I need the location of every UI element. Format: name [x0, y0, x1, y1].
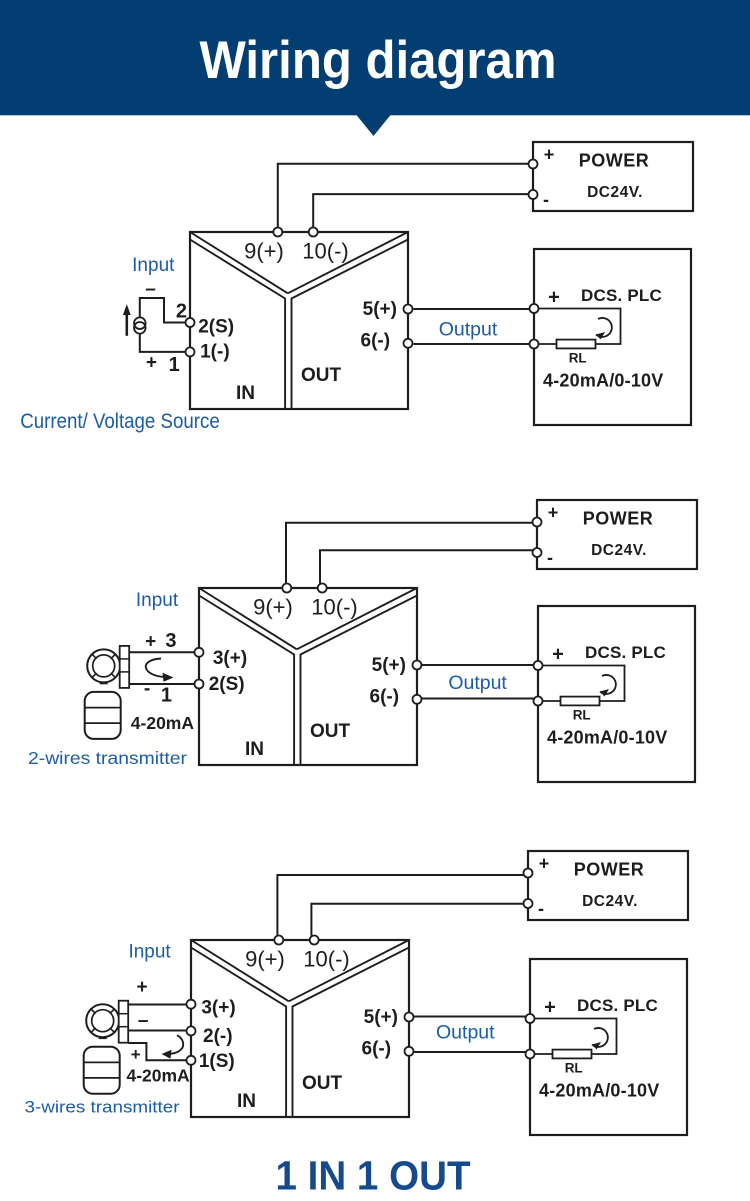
svg-text:Current/ Voltage Source: Current/ Voltage Source: [20, 409, 220, 433]
svg-text:Input: Input: [128, 941, 171, 962]
svg-text:3(+): 3(+): [213, 648, 247, 669]
svg-text:1 IN 1 OUT: 1 IN 1 OUT: [276, 1153, 471, 1199]
svg-text:1(S): 1(S): [199, 1051, 235, 1072]
svg-text:Input: Input: [132, 255, 175, 276]
svg-text:2: 2: [176, 301, 187, 323]
svg-text:2(S): 2(S): [209, 674, 245, 695]
svg-text:+: +: [137, 977, 148, 998]
svg-text:4-20mA: 4-20mA: [131, 713, 195, 733]
svg-text:2-wires transmitter: 2-wires transmitter: [28, 748, 187, 768]
svg-text:Output: Output: [439, 319, 498, 341]
svg-text:Output: Output: [448, 672, 507, 694]
svg-text:1: 1: [169, 354, 180, 376]
svg-text:2(S): 2(S): [198, 317, 234, 338]
svg-text:-: -: [144, 679, 150, 700]
svg-text:3: 3: [165, 630, 176, 652]
svg-text:2(-): 2(-): [203, 1026, 233, 1047]
svg-text:3(+): 3(+): [201, 998, 235, 1019]
svg-text:+: +: [146, 352, 157, 373]
svg-text:Output: Output: [436, 1022, 495, 1044]
svg-text:4-20mA: 4-20mA: [126, 1066, 190, 1086]
svg-text:Wiring diagram: Wiring diagram: [200, 31, 557, 90]
svg-text:1(-): 1(-): [200, 342, 230, 363]
svg-text:–: –: [138, 1011, 149, 1032]
svg-text:1: 1: [161, 685, 172, 707]
svg-text:3-wires transmitter: 3-wires transmitter: [25, 1098, 180, 1117]
svg-text:–: –: [145, 279, 156, 300]
svg-text:Input: Input: [136, 590, 179, 611]
svg-text:+: +: [145, 631, 156, 652]
svg-text:+: +: [131, 1045, 141, 1064]
